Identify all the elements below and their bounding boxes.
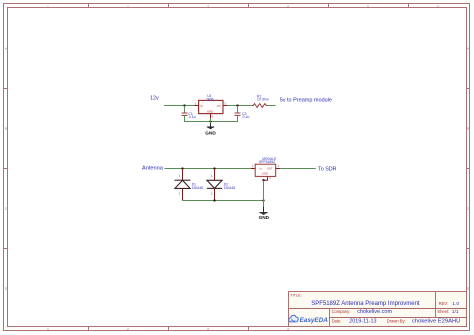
title block frame [289, 292, 467, 327]
svg-text:2019-11-13: 2019-11-13 [349, 319, 376, 325]
svg-text:A: A [467, 46, 469, 50]
resistor R1 [252, 104, 267, 108]
svg-text:REV:: REV: [439, 301, 449, 306]
svg-text:12v: 12v [150, 96, 159, 102]
ground symbol (top) [207, 123, 214, 129]
svg-text:Antenna: Antenna [142, 166, 164, 172]
svg-text:EasyEDA: EasyEDA [300, 317, 329, 324]
svg-text:Drawn By:: Drawn By: [387, 319, 406, 324]
svg-text:0.1u: 0.1u [243, 115, 250, 119]
svg-text:GND: GND [259, 215, 270, 220]
svg-text:OUT: OUT [267, 167, 273, 171]
svg-text:chokelive.com: chokelive.com [357, 309, 392, 315]
svg-text:7805: 7805 [206, 97, 214, 101]
svg-text:1N4148: 1N4148 [224, 186, 235, 190]
ground rail wire (lower circuit) [183, 200, 264, 202]
capacitor C2 [235, 106, 241, 122]
svg-text:Date:: Date: [332, 319, 342, 324]
svg-text:Company:: Company: [332, 309, 351, 314]
svg-text:VI: VI [200, 104, 203, 108]
svg-text:Sheet:: Sheet: [437, 309, 449, 314]
ground rail wire (top circuit) [185, 116, 238, 122]
svg-text:B: B [5, 126, 7, 130]
wire U1 output to resistor [227, 105, 252, 107]
ground symbol (lower) [259, 207, 267, 215]
svg-text:GND: GND [262, 172, 268, 176]
svg-text:chokelive E29AHU: chokelive E29AHU [412, 319, 460, 325]
junction at module GND pin [262, 179, 264, 181]
junction at C2 top [236, 104, 238, 106]
svg-text:GND: GND [205, 130, 216, 135]
junction at D1 top [181, 167, 183, 169]
svg-text:10 Ohm: 10 Ohm [257, 97, 269, 101]
svg-text:B: B [467, 126, 469, 130]
junction at module GND rail [262, 199, 264, 201]
wire module output to SDR [280, 168, 316, 170]
junction at D2 top [213, 167, 215, 169]
diode D1 (cathode up) [175, 169, 191, 201]
wire 12v to U1 input [164, 105, 194, 107]
wire Antenna to module input [165, 168, 251, 170]
capacitor C1 [182, 106, 188, 122]
wire resistor to 5v label [267, 105, 275, 107]
svg-text:1/1: 1/1 [452, 309, 459, 315]
svg-text:To SDR: To SDR [318, 166, 337, 172]
junction at D2 bottom [213, 199, 215, 201]
svg-text:A: A [5, 46, 7, 50]
module U2 SPF5189Z [251, 164, 280, 180]
svg-text:0.1u: 0.1u [189, 115, 196, 119]
junction at ground rail / U1 GND [209, 120, 211, 122]
junction at C1 top [183, 104, 185, 106]
diode D2 (cathode down) [207, 169, 222, 201]
svg-text:5v to Preamp module: 5v to Preamp module [280, 98, 332, 104]
svg-text:1.0: 1.0 [452, 301, 459, 307]
wire module GND to ground symbol [263, 180, 265, 207]
wire U1 GND down to ground symbol [210, 118, 212, 123]
svg-text:SPF5189Z Antenna Preamp Improv: SPF5189Z Antenna Preamp Improvment [311, 301, 420, 307]
EasyEDA logo [289, 315, 329, 324]
svg-text:1N4148: 1N4148 [192, 186, 203, 190]
regulator U1 7805 [194, 100, 227, 118]
svg-text:GND: GND [207, 110, 213, 114]
svg-text:SPF5189Z: SPF5189Z [259, 160, 275, 164]
svg-text:TITLE:: TITLE: [290, 293, 301, 297]
